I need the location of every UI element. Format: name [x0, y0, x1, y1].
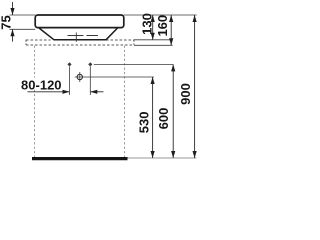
dimension 80-120 line right [90, 91, 103, 93]
dimension 600 line [172, 64, 174, 158]
faucet hole circle crosshair vertical [79, 72, 81, 82]
extension line from right diamond to 600 [94, 63, 173, 65]
faucet hole circle crosshair horizontal to 530 [75, 76, 154, 78]
counter bottom dashed edge [26, 44, 134, 46]
dimension 900 line [194, 15, 196, 158]
extension line rim top left [10, 14, 36, 16]
counter right step dashed [133, 40, 135, 45]
svg-text:80-120: 80-120 [21, 77, 61, 92]
svg-text:530: 530 [137, 112, 152, 134]
svg-text:900: 900 [178, 83, 193, 105]
extension line counter bottom right [134, 44, 173, 46]
svg-text:600: 600 [156, 108, 171, 130]
extension line rim top right [124, 14, 197, 16]
svg-text:75: 75 [0, 15, 13, 29]
drain centerline horizontal [68, 35, 99, 37]
extension drop from right diamond [89, 67, 91, 96]
extension drop from left diamond [69, 67, 71, 96]
label 80-120 [20, 78, 64, 90]
drain centerline vertical [75, 33, 77, 42]
dimension 130 line [152, 15, 154, 40]
counter top dashed edge right [106, 39, 134, 41]
tap hole marker diamond right [88, 62, 92, 66]
dimension 80-120 line left [28, 91, 70, 93]
washbasin rim [35, 15, 124, 28]
floor thin line [128, 157, 197, 159]
washbasin body slopes [39, 28, 118, 40]
counter top dashed edge left [26, 39, 51, 41]
dimension 160 line [170, 15, 172, 45]
cabinet dashed vertical left [34, 46, 36, 158]
faucet hole circle [77, 74, 82, 79]
cabinet dashed vertical right [124, 46, 126, 158]
extension line basin bottom right [134, 39, 173, 41]
counter left step dashed [25, 40, 27, 45]
tap hole marker diamond left [67, 62, 71, 66]
dimension 530 line [152, 77, 154, 158]
dimension 75 line upper [12, 2, 14, 15]
extension line rim bottom left [10, 28, 36, 30]
dimension 75 line lower [12, 30, 14, 42]
svg-text:160: 160 [155, 15, 170, 37]
svg-text:130: 130 [139, 13, 154, 35]
floor thick line [32, 157, 128, 160]
